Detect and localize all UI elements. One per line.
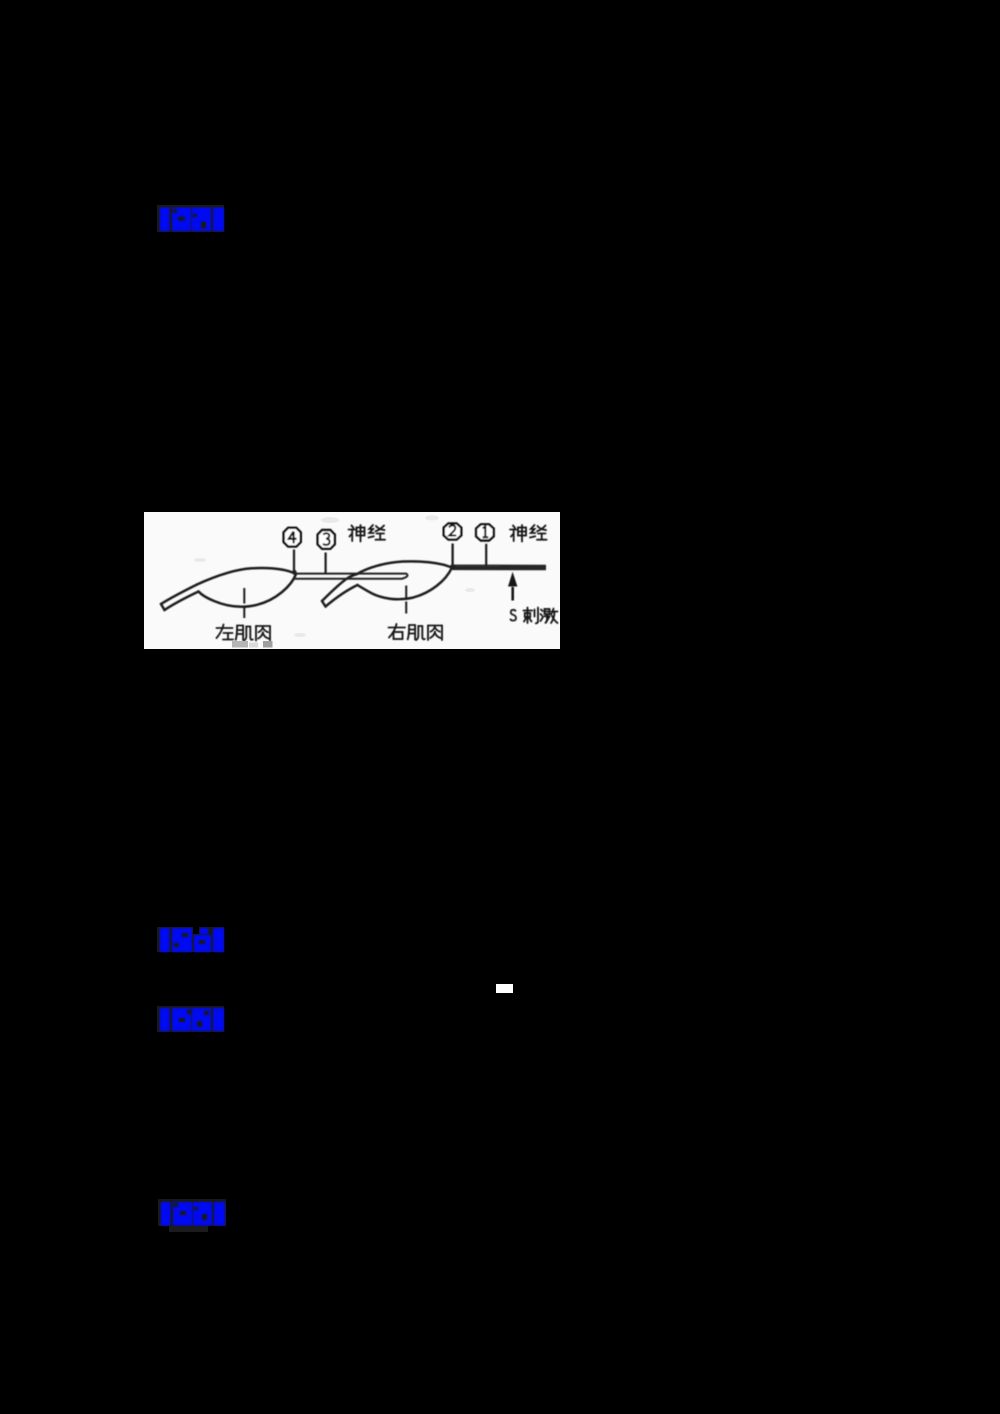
marker [kaodian] highlight box with blue label: [157, 925, 225, 953]
glyph shen: [349, 525, 365, 542]
marker [jieda] highlight box with blue label: [157, 1198, 227, 1234]
label "shenjing" (nerve) right, hand-drawn glyphs: [510, 525, 547, 542]
left muscle tail top edge: [161, 585, 197, 605]
dashed pointer line of right muscle label: [405, 586, 407, 614]
dashed pointer line of left muscle label: [243, 588, 245, 618]
glyph ji: [408, 625, 425, 640]
figure: nerve-muscle preparation diagram (white panel): [144, 512, 560, 649]
glyph jing: [369, 525, 386, 540]
gray smudges under left-muscle label: [232, 641, 248, 648]
faint scan specks: [194, 516, 475, 638]
octagon badge 1: [476, 524, 494, 540]
glyph blob 2: [192, 208, 211, 232]
left lenticular bracket: [160, 208, 170, 232]
left muscle belly top outline: [197, 568, 296, 584]
label "zuojirou" (left muscle), hand-drawn glyphs: [217, 625, 271, 641]
right muscle belly bottom outline: [358, 568, 453, 600]
right muscle belly top outline: [357, 561, 452, 574]
glyph ji (stimulate), clipped at panel edge: [541, 609, 558, 624]
glyph ji: [236, 626, 253, 641]
junction knot at right muscle tip: [450, 564, 456, 570]
panel background: [144, 512, 560, 649]
right muscle tail bottom edge: [326, 585, 358, 607]
glyph you: [389, 624, 406, 639]
octagon badge 3: [318, 530, 335, 549]
octagon badge 4: [284, 528, 301, 547]
stimulus arrow (upward): [508, 572, 517, 601]
marker [dianping] highlight box with blue label: [157, 205, 225, 233]
marker [fenxi] highlight box with blue label: [157, 1006, 225, 1033]
pointer line for label 3: [325, 553, 327, 575]
white dash (answer blank): [496, 984, 513, 993]
octagon badge 2: [444, 523, 462, 539]
left muscle tail tip: [161, 604, 165, 610]
left muscle belly bottom outline: [199, 574, 297, 607]
glyph rou: [256, 626, 270, 641]
pointer line for label 4: [293, 550, 295, 572]
glyph rou: [428, 626, 442, 641]
left muscle tail bottom edge: [165, 592, 199, 611]
glyph blob 1: [172, 208, 191, 232]
glyph ci: [524, 608, 539, 624]
right lenticular bracket: [213, 208, 224, 232]
nerve between muscles (double line probe ending inside right muscle): [294, 574, 408, 579]
right muscle tail tip: [322, 601, 326, 607]
pointer line for label 1: [485, 544, 487, 566]
junction knot at left muscle tip: [292, 570, 297, 575]
label "ciji" (stimulus), hand-drawn glyphs: [524, 608, 558, 624]
label "S" of stimulus: [510, 610, 516, 621]
nerve on the right (thick line to stimulus site): [453, 564, 547, 570]
label "youjirou" (right muscle), hand-drawn glyphs: [389, 624, 443, 640]
pointer line for label 2: [451, 544, 453, 567]
glyph zuo: [217, 625, 234, 640]
label "shenjing" (nerve) left, hand-drawn glyphs: [349, 525, 386, 542]
right muscle tail top edge: [322, 574, 357, 601]
